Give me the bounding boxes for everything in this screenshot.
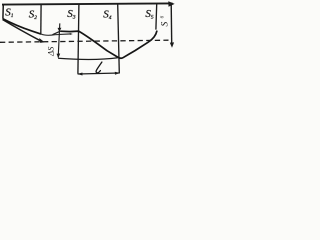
- ordinate line at point 2 (S2|S3): [40, 4, 42, 34]
- ordinate line at point 3 (S3|S4), continues as left extension of l-dimension: [78, 4, 79, 74]
- l dimension right arrowhead: [115, 72, 120, 75]
- settlement profile: flat section then trough: [60, 31, 157, 59]
- horizontal leader from delta-S to profile vertex: [58, 58, 118, 60]
- delta-S dimension stem (vertical): [58, 23, 60, 57]
- top axis right arrowhead: [168, 1, 174, 7]
- tilt line arrowhead at mean line: [39, 38, 44, 43]
- l dimension left arrowhead: [77, 73, 82, 76]
- tilt line from origin to mean line: [3, 20, 42, 42]
- delta-S upper arrowhead (points down onto profile): [58, 28, 62, 32]
- l dimension line: [78, 73, 120, 74]
- label l (script ell, length of steep section): [96, 62, 102, 73]
- dashed mean-settlement line: [0, 40, 169, 42]
- svg-text:ΔS: ΔS: [45, 46, 55, 57]
- right vertical settlement axis s: [170, 3, 173, 43]
- top axis line (distance axis): [2, 3, 173, 4]
- settlement axis down arrowhead: [170, 42, 174, 47]
- left border of figure: [2, 4, 4, 19]
- svg-text:S: S: [160, 22, 170, 27]
- settlement profile polyline: [3, 19, 41, 34]
- paper background: [0, 0, 177, 79]
- delta-S lower arrowhead (points down onto leader): [57, 54, 61, 59]
- ordinate line at point 4 (S4|S5), continues to vertex and l-dimension: [118, 4, 120, 73]
- ordinate line at point 5 (S5|s axis): [155, 4, 158, 30]
- rise of profile into junction at point between S2 and S3: [53, 31, 61, 35]
- faint lower settlement line from point 2 with small arrow: [41, 34, 71, 35]
